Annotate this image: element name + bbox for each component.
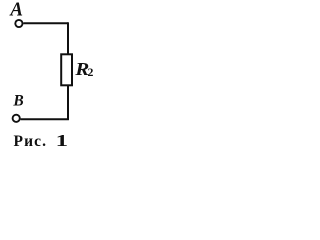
terminal A — [15, 20, 22, 27]
svg-text:B: B — [12, 92, 23, 109]
wire bottom corner to B — [21, 118, 69, 120]
wire corner down to resistor — [67, 22, 69, 54]
wire resistor down to corner — [67, 85, 69, 120]
svg-text:A: A — [9, 0, 23, 21]
wire A to corner — [23, 22, 68, 24]
svg-text:1: 1 — [56, 131, 68, 150]
resistor R2 body — [61, 54, 72, 85]
svg-text:2: 2 — [88, 65, 94, 79]
svg-text:Рис.: Рис. — [14, 133, 48, 150]
terminal B — [13, 115, 20, 122]
